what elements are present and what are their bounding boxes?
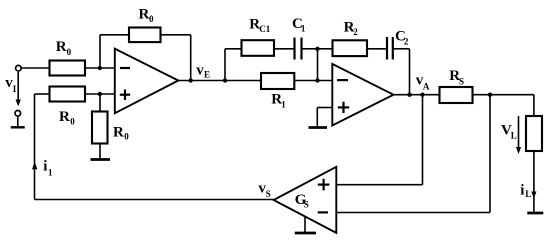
label i1 bbox=[43, 159, 53, 178]
resistor RS bbox=[440, 87, 473, 103]
U2 plus sign bbox=[338, 102, 349, 113]
svg-text:E: E bbox=[204, 70, 210, 80]
resistor RL (load) bbox=[526, 116, 542, 151]
svg-text:0: 0 bbox=[124, 132, 129, 142]
ground (U2 plus) bbox=[309, 126, 328, 129]
wire load rail down to RL bbox=[533, 95, 535, 116]
svg-text:i: i bbox=[520, 182, 524, 198]
wire GS plus horizontal bbox=[336, 184, 422, 186]
svg-text:0: 0 bbox=[70, 116, 75, 126]
label iL bbox=[520, 182, 531, 199]
input terminal - (lower) bbox=[15, 111, 21, 117]
svg-text:L: L bbox=[525, 189, 531, 199]
wire mid node to R2 bbox=[318, 48, 333, 50]
label R0 (input, non-inverting) bbox=[59, 109, 75, 126]
label vA bbox=[416, 72, 430, 91]
wire U2 plus down bbox=[316, 108, 318, 128]
label vI bbox=[5, 75, 17, 94]
wire feedback left horizontal bbox=[100, 34, 129, 36]
svg-text:S: S bbox=[266, 189, 271, 199]
node vA bbox=[420, 93, 424, 97]
svg-text:R: R bbox=[113, 124, 124, 140]
wire R0v to ground bbox=[99, 144, 101, 160]
node (grounding R0 tap, plus input) bbox=[98, 92, 102, 96]
wire feedback right horizontal bbox=[161, 34, 191, 36]
svg-text:C1: C1 bbox=[259, 24, 270, 34]
wire input to R0a bbox=[21, 67, 50, 69]
ground (R0v) bbox=[91, 158, 111, 161]
svg-text:i: i bbox=[43, 159, 47, 175]
wire GS output (bottom rail) bbox=[35, 199, 274, 201]
wire feedback after RS down bbox=[489, 95, 491, 213]
resistor RC1 bbox=[242, 40, 275, 56]
wire R2 to C2 bbox=[367, 48, 386, 50]
svg-text:S: S bbox=[459, 76, 464, 86]
svg-text:2: 2 bbox=[404, 36, 409, 46]
wire left rail vertical bbox=[34, 94, 36, 200]
label C2 bbox=[395, 29, 409, 47]
wire feedback tap up bbox=[99, 35, 101, 68]
label R0 (feedback) bbox=[139, 6, 155, 24]
label RC1 bbox=[249, 17, 270, 34]
wire vE up to upper branch bbox=[224, 49, 226, 81]
op-amp U2 bbox=[332, 64, 393, 126]
GS minus sign bbox=[318, 211, 328, 213]
VL arrow bbox=[516, 116, 521, 154]
resistor R1 bbox=[261, 73, 294, 89]
wire RC1 to C1 bbox=[274, 48, 294, 50]
svg-text:2: 2 bbox=[353, 27, 358, 37]
ground (GS) bbox=[295, 217, 316, 233]
svg-text:1: 1 bbox=[48, 168, 53, 178]
label C1 bbox=[292, 16, 306, 33]
node (U1 output / feedback) bbox=[189, 78, 193, 82]
svg-text:R: R bbox=[59, 109, 70, 125]
wire U2 output to RS bbox=[394, 94, 440, 96]
wire C2 to corner bbox=[394, 48, 410, 50]
wire GS minus horizontal bbox=[336, 212, 490, 214]
wire U2 plus stub bbox=[317, 107, 332, 109]
wire to RC1 bbox=[225, 48, 242, 50]
node (feedback tap, minus input) bbox=[98, 66, 102, 70]
svg-text:0: 0 bbox=[67, 47, 72, 57]
wire R0a to op-amp minus bbox=[85, 67, 115, 69]
node (lower mid) bbox=[315, 78, 319, 82]
label R0 (grounding) bbox=[113, 124, 129, 141]
wire left rail horizontal to R0b bbox=[35, 93, 50, 95]
svg-text:1: 1 bbox=[301, 23, 306, 33]
resistor R0 (input, non-inverting) bbox=[50, 87, 86, 102]
resistor R0 (feedback) bbox=[129, 28, 161, 43]
label R0 (input, inverting) bbox=[56, 39, 72, 57]
label vE bbox=[196, 62, 210, 79]
wire mid vertical bbox=[317, 49, 319, 81]
node (C2 feedback join) bbox=[407, 93, 411, 97]
label VL bbox=[501, 123, 517, 141]
wire vA down to GS plus bbox=[422, 95, 424, 185]
wire C2 branch down bbox=[409, 49, 411, 95]
node (after RS) bbox=[488, 93, 492, 97]
svg-text:L: L bbox=[511, 130, 517, 140]
label R1 bbox=[271, 91, 286, 109]
label GS bbox=[295, 192, 309, 210]
label RS bbox=[449, 68, 464, 86]
svg-text:0: 0 bbox=[149, 14, 154, 24]
label R2 bbox=[344, 20, 359, 38]
svg-text:I: I bbox=[13, 84, 17, 94]
wire U1 output to R1 bbox=[178, 80, 261, 82]
resistor R2 bbox=[333, 40, 368, 56]
svg-text:R: R bbox=[139, 6, 150, 22]
ground (load) bbox=[527, 212, 543, 215]
wire R1 to U2 minus bbox=[294, 80, 332, 82]
wire feedback right vertical bbox=[190, 35, 192, 81]
svg-text:A: A bbox=[423, 82, 430, 92]
node (upper mid) bbox=[315, 47, 319, 51]
U1 minus sign bbox=[120, 67, 130, 69]
capacitor C2 bbox=[387, 37, 393, 60]
vI arrow bbox=[16, 72, 21, 106]
op-amp GS (current sense, pointing left) bbox=[274, 167, 337, 233]
node vE bbox=[223, 78, 227, 82]
capacitor C1 bbox=[295, 38, 302, 60]
i1 arrow bbox=[32, 162, 37, 169]
wire RL to ground bbox=[533, 151, 535, 213]
label vS bbox=[258, 180, 270, 199]
svg-text:v: v bbox=[196, 62, 204, 78]
op-amp U1 bbox=[115, 49, 179, 114]
iL arrow bbox=[531, 192, 536, 199]
wire C1 to mid node bbox=[303, 48, 318, 50]
svg-text:R: R bbox=[56, 39, 67, 55]
ground (input) bbox=[11, 116, 25, 127]
svg-text:1: 1 bbox=[281, 99, 286, 109]
U1 plus sign bbox=[120, 90, 130, 100]
U2 minus sign bbox=[337, 79, 348, 81]
GS plus sign bbox=[318, 179, 330, 191]
resistor R0 (grounding, vertical) bbox=[92, 112, 108, 144]
svg-text:S: S bbox=[304, 199, 309, 209]
wire tap down to R0v bbox=[99, 94, 101, 112]
input terminal + (upper) bbox=[16, 65, 22, 71]
resistor R0 (input, inverting) bbox=[50, 61, 86, 76]
wire RS to load corner bbox=[473, 94, 534, 96]
wire R0b to op-amp plus bbox=[85, 93, 115, 95]
